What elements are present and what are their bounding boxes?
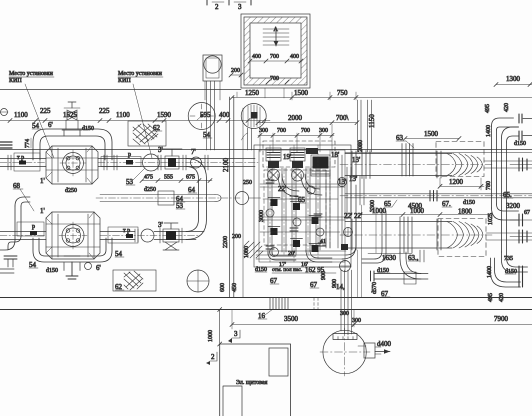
- manifold centrelines: [270, 145, 330, 262]
- riser below grate circle: [242, 128, 252, 150]
- pump P2 discharge pipe: [100, 232, 200, 240]
- label d150 manifold left: [255, 267, 267, 273]
- svg-text:400: 400: [219, 111, 230, 119]
- manifold dark unit 18: [306, 148, 330, 176]
- svg-text:1500: 1500: [294, 89, 309, 97]
- svg-text:675: 675: [186, 175, 195, 181]
- tank T2 dashed enclosure: [438, 219, 486, 257]
- svg-text:200: 200: [231, 68, 240, 74]
- riser stubs crossing bottom wall: [314, 298, 318, 310]
- svg-text:1000: 1000: [244, 246, 250, 258]
- top dimension row 1100 225 1525 225 1100 1590 595 400: [0, 107, 270, 123]
- dimension 1630 63 under tank2: [368, 254, 419, 263]
- manifold bottom header pipes: [256, 251, 346, 259]
- svg-text:1500: 1500: [424, 130, 439, 138]
- pump P1 body: [46, 146, 98, 184]
- dimension 3500: [230, 310, 356, 329]
- dimension 7900: [352, 315, 532, 327]
- svg-text:1100: 1100: [14, 111, 28, 119]
- svg-text:6': 6': [48, 121, 53, 129]
- manifold vertical pump unit 1: [266, 148, 281, 181]
- drain circle symbol: [187, 270, 209, 292]
- pipe loop under pump P2: [33, 238, 112, 271]
- svg-text:1300: 1300: [506, 75, 521, 83]
- extension line at 3500/7900 split: [353, 310, 355, 327]
- svg-text:495: 495: [485, 104, 491, 113]
- right riser column A: [492, 118, 519, 256]
- column pair with 1150 dimension: [358, 100, 377, 152]
- pump P1 discharge pipe: [98, 155, 258, 170]
- svg-text:d150: d150: [514, 141, 526, 147]
- manifold vertical pipes: [268, 155, 342, 255]
- vertical dims 2200 200 1000: [220, 234, 250, 292]
- instrument box P2 right: [108, 227, 138, 243]
- labels right column lower: [487, 256, 517, 302]
- svg-text:450: 450: [232, 283, 238, 292]
- manifold valve c: [309, 216, 321, 225]
- instrument box T P on suction: [14, 153, 40, 171]
- instrument circle left of tank2: [344, 228, 353, 237]
- label 67 under drain: [381, 290, 390, 298]
- hatched wedge near wall: [244, 241, 263, 258]
- tank T1 dashed enclosure: [436, 142, 484, 177]
- tank T2 dished head arcs: [447, 222, 483, 249]
- svg-text:Место установки: Место установки: [9, 71, 54, 77]
- instrument circle lower: [85, 263, 92, 270]
- label 54 lower left: [29, 261, 38, 269]
- riser pipes between levels left of tank: [347, 167, 376, 297]
- grate symbol circle: [241, 104, 266, 129]
- label 63 leader top: [396, 134, 414, 148]
- bottom wall line 2: [0, 309, 532, 311]
- svg-text:17': 17': [279, 262, 286, 268]
- corridor secondary line right: [345, 152, 532, 154]
- label 53 line2: [176, 202, 185, 210]
- ventilation room wall hatching: [244, 17, 307, 85]
- tank T2 shell: [340, 217, 492, 253]
- svg-text:1630: 1630: [382, 254, 397, 262]
- svg-text:d150: d150: [463, 200, 475, 206]
- sump side nozzle: [364, 343, 381, 358]
- svg-text:Эл. щитовая: Эл. щитовая: [236, 380, 268, 386]
- svg-text:d150: d150: [82, 126, 94, 132]
- manifold horizontal tie pipes: [260, 184, 345, 232]
- svg-text:555: 555: [164, 175, 173, 181]
- label 64 mid: [188, 186, 197, 194]
- vertical dim 1000 bottom: [208, 308, 222, 347]
- middle pipe with valve: [96, 191, 261, 205]
- instrument box on discharge line 1: [101, 157, 141, 167]
- dimension row 1000 1000 1800: [358, 207, 492, 217]
- hatched equipment pad 62 lower: [113, 270, 156, 291]
- top section markers 2 and 3: [207, 0, 251, 5]
- label 54 upper: [32, 122, 41, 130]
- left edge instrument circle: [0, 109, 8, 116]
- marker 3 bottom: [228, 330, 240, 343]
- instrument box P2 left: [17, 222, 44, 236]
- svg-text:19': 19': [283, 153, 291, 161]
- dimension 1200: [438, 178, 484, 190]
- svg-text:300: 300: [319, 128, 328, 134]
- svg-text:т р: т р: [17, 155, 24, 161]
- label 67 mid: [442, 200, 452, 208]
- svg-text:225: 225: [40, 107, 51, 115]
- right riser bottom elbows: [492, 204, 519, 220]
- ventilation room outer wall: [241, 14, 310, 88]
- manifold vertical pump unit 2: [290, 148, 305, 181]
- manifold bottom arcs: [268, 250, 332, 262]
- manifold instrument circles: [266, 178, 347, 257]
- svg-text:20': 20': [288, 251, 295, 257]
- pump P1 flange circle: [60, 150, 86, 176]
- svg-text:774: 774: [25, 139, 31, 148]
- dimension row 300 700 700 300: [258, 128, 334, 137]
- bottom right flanges: [519, 266, 523, 287]
- svg-text:250: 250: [243, 180, 252, 186]
- svg-text:6': 6': [96, 264, 101, 272]
- pump symbol circle: [188, 103, 215, 130]
- svg-text:т р: т р: [123, 228, 130, 234]
- small dims 300 300: [340, 311, 361, 324]
- svg-text:отм. пол нас.: отм. пол нас.: [272, 267, 303, 273]
- svg-text:2080: 2080: [358, 140, 364, 152]
- left edge vertical pipe with elbows: [0, 197, 30, 250]
- svg-text:3': 3': [158, 221, 163, 229]
- svg-text:КИП: КИП: [118, 78, 131, 84]
- manifold small flanges: [266, 180, 326, 249]
- label d150 manifold right: [377, 268, 390, 274]
- right mid flanges on tank lines: [510, 158, 532, 243]
- svg-text:d570: d570: [372, 282, 378, 294]
- svg-text:225: 225: [99, 107, 110, 115]
- svg-text:13': 13': [349, 175, 357, 183]
- svg-text:2000: 2000: [288, 114, 303, 122]
- ladder detail with section arrow A: [263, 29, 289, 46]
- tank T1 shell: [340, 144, 492, 179]
- labels right column upper: [485, 103, 526, 147]
- right horizontal pipe extensions: [484, 161, 532, 240]
- bottom right elbow pipes: [491, 252, 528, 287]
- corridor top line: [0, 149, 532, 151]
- bottom left risers to sump: [341, 270, 352, 335]
- svg-text:300: 300: [340, 311, 349, 317]
- svg-text:1': 1': [40, 207, 45, 215]
- svg-text:750: 750: [337, 89, 348, 97]
- svg-text:2: 2: [215, 3, 219, 11]
- svg-text:3300: 3300: [370, 200, 376, 212]
- tank T1 dished head arcs: [447, 154, 483, 176]
- svg-text:400: 400: [290, 54, 299, 60]
- right riser top flanges: [519, 114, 532, 140]
- manifold valve e: [291, 239, 303, 248]
- svg-text:1800: 1800: [458, 208, 473, 216]
- label 53: [126, 168, 145, 186]
- manifold outer rectangle: [254, 145, 351, 267]
- svg-text:d250: d250: [65, 188, 77, 194]
- labels right edge 65 3200: [503, 191, 521, 210]
- svg-text:1590: 1590: [157, 111, 172, 119]
- instrument circle on line 1: [191, 155, 209, 170]
- manifold to tank connector arcs: [342, 185, 386, 263]
- label 64 upper: [176, 195, 185, 203]
- label d400 with flow arrow: [375, 340, 392, 354]
- svg-text:420: 420: [504, 103, 510, 112]
- svg-text:d250: d250: [144, 187, 156, 193]
- chimney duct verticals: [207, 81, 215, 150]
- room bottom dimension 700: [266, 76, 289, 84]
- drain pipe elbow under tank2: [371, 252, 429, 281]
- valve V4 on line 2: [160, 223, 182, 250]
- wall column pair: [230, 97, 244, 297]
- svg-text:Место установки: Место установки: [118, 71, 163, 77]
- elbow circle on line 1: [143, 154, 160, 171]
- pump P2 suction pipe: [0, 232, 46, 240]
- small stub pipes above bottom line: [404, 250, 424, 284]
- label 67 manifold right: [310, 281, 319, 289]
- room side dimension 200: [229, 68, 243, 77]
- svg-text:3500: 3500: [284, 315, 299, 323]
- svg-text:1000: 1000: [208, 330, 214, 342]
- svg-text:2200: 2200: [223, 236, 229, 248]
- right riser mid flange: [510, 210, 532, 226]
- label 67 manifold left: [270, 277, 279, 285]
- svg-text:700: 700: [301, 128, 310, 134]
- manifold valve f: [309, 244, 321, 253]
- svg-text:3000: 3000: [259, 210, 265, 222]
- svg-text:1525: 1525: [63, 111, 78, 119]
- leader line to instrument point 2: [133, 84, 152, 158]
- middle transfer pipe: [340, 191, 532, 202]
- bottom wall line 1: [0, 297, 532, 299]
- svg-text:7': 7': [191, 148, 196, 156]
- pipe loop over pump P1: [33, 129, 112, 160]
- svg-text:900: 900: [321, 271, 327, 280]
- svg-text:4500: 4500: [408, 202, 423, 210]
- instrument circle below manifold: [340, 261, 351, 272]
- valve V3 on discharge line 1: [158, 149, 186, 170]
- svg-text:1400: 1400: [486, 125, 492, 137]
- svg-text:300: 300: [259, 128, 268, 134]
- svg-text:1150: 1150: [368, 114, 376, 128]
- instrument location label 1: [9, 71, 54, 84]
- U riser elbow joining line 1 and line 2: [186, 159, 207, 240]
- svg-text:3': 3': [158, 146, 163, 154]
- dimension row 475 555 675: [140, 175, 212, 183]
- manifold valve b: [291, 202, 303, 211]
- floor elevation note: [272, 266, 336, 274]
- channel grate ticks 16: [258, 298, 288, 320]
- pump P2 body: [46, 212, 100, 259]
- svg-text:700: 700: [270, 76, 279, 82]
- valve V1 on loop riser: [64, 102, 80, 129]
- label 54 right of P2: [115, 250, 124, 258]
- svg-text:13': 13': [338, 178, 346, 186]
- marker 2 bottom: [206, 352, 217, 365]
- svg-text:67: 67: [524, 210, 530, 216]
- label 65' manifold: [298, 196, 306, 204]
- svg-text:1200: 1200: [449, 178, 464, 186]
- left edge elbow lower flange: [4, 256, 17, 267]
- svg-text:3200: 3200: [506, 202, 521, 210]
- drain anchor under pump P2: [64, 256, 80, 279]
- chimney block: [203, 55, 222, 100]
- svg-text:300: 300: [352, 318, 361, 324]
- manifold valve a: [268, 198, 280, 207]
- svg-text:700: 700: [270, 54, 279, 60]
- svg-text:735: 735: [504, 256, 513, 262]
- svg-text:2: 2: [211, 353, 215, 361]
- svg-text:22': 22': [354, 212, 362, 220]
- dimension 2000 and 700: [256, 114, 359, 125]
- svg-text:3: 3: [234, 330, 238, 338]
- svg-text:р: р: [128, 152, 131, 158]
- svg-text:200: 200: [232, 234, 241, 240]
- svg-text:41: 41: [320, 239, 326, 245]
- left edge flange stack: [0, 142, 14, 273]
- manifold inner dashed rect: [264, 170, 326, 245]
- label 68: [13, 182, 34, 211]
- manifold upper arcs: [278, 174, 322, 197]
- svg-text:700\: 700\: [336, 114, 349, 122]
- dimension 1500 over tank 1: [403, 130, 461, 141]
- svg-text:7900: 7900: [494, 315, 509, 323]
- svg-text:400: 400: [252, 54, 261, 60]
- room interior dimension row 400 700 400: [248, 54, 303, 63]
- hatched equipment pad 62 upper: [128, 121, 166, 146]
- leader line to instrument point 1: [25, 84, 54, 158]
- manifold dashed boundary: [263, 141, 335, 167]
- svg-text:d400: d400: [377, 340, 392, 348]
- svg-text:900: 900: [332, 279, 338, 288]
- svg-text:1250: 1250: [245, 89, 260, 97]
- svg-text:16': 16': [301, 262, 308, 268]
- svg-text:700: 700: [277, 128, 286, 134]
- elbow circle on line 2: [135, 229, 204, 242]
- svg-text:1100: 1100: [116, 111, 130, 119]
- label 65 mid: [384, 200, 397, 208]
- extension lines from dimension rows: [237, 88, 356, 152]
- svg-text:2100: 2100: [222, 158, 230, 173]
- instrument location label 2: [118, 71, 163, 84]
- svg-text:475: 475: [144, 175, 153, 181]
- dark fitting left of tank2: [341, 244, 348, 250]
- svg-text:d150: d150: [46, 268, 58, 274]
- svg-text:1400: 1400: [487, 266, 493, 278]
- svg-text:600: 600: [220, 283, 226, 292]
- manifold valve d: [268, 227, 280, 236]
- svg-text:р: р: [32, 224, 35, 230]
- svg-text:1': 1': [40, 177, 45, 185]
- electrical room outline: [220, 344, 291, 416]
- pump P1 suction pipe: [0, 155, 46, 170]
- svg-text:КИП: КИП: [9, 78, 22, 84]
- svg-text:3: 3: [238, 3, 242, 11]
- dimension row 1250 1500 750: [230, 89, 532, 100]
- label 54 right of loop: [203, 131, 212, 139]
- dimension 1300 top right: [494, 75, 532, 87]
- long horizontal grid line: [0, 89, 241, 91]
- sump tank circle: [320, 328, 370, 376]
- pump P2 flange circle: [59, 222, 87, 249]
- svg-text:А: А: [274, 27, 279, 33]
